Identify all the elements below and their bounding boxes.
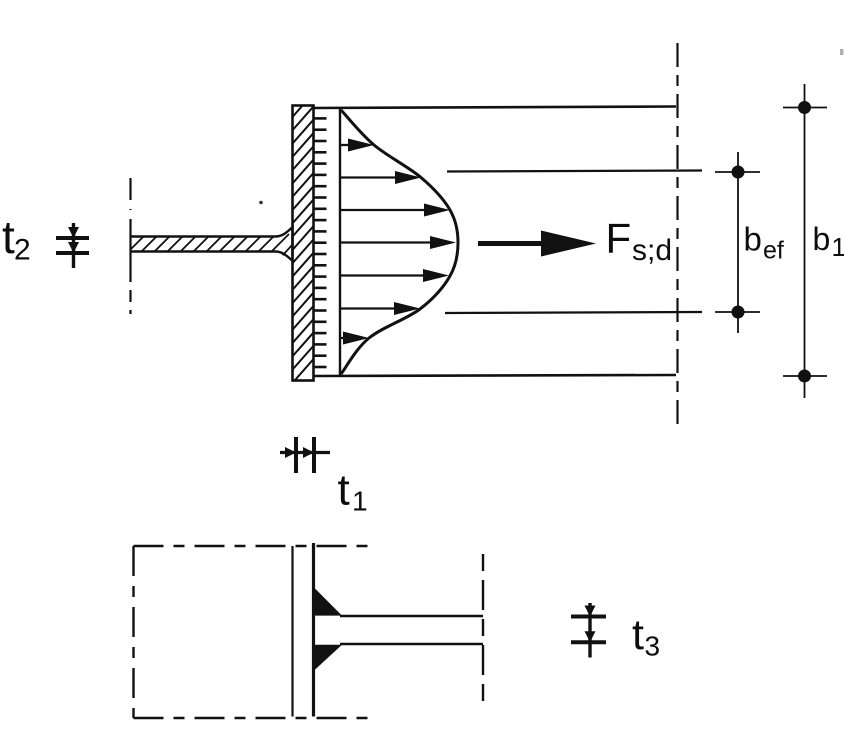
label F_s;d: [606, 215, 673, 268]
dimension mark t3: [571, 603, 606, 658]
stress arrow 3: [340, 204, 450, 217]
svg-text:t: t: [338, 466, 350, 515]
dimension mark t2: [56, 223, 89, 268]
label t1: [338, 466, 368, 517]
b_ef bottom boundary line: [445, 312, 702, 313]
stress arrow 6: [340, 302, 420, 315]
centre line (left dash-dot, flange cut line): [129, 178, 131, 314]
flange plate t2 (horizontal hatched plate): [126, 227, 304, 261]
end plate (vertical hatched plate): [288, 88, 318, 388]
dimension b_1: [783, 84, 827, 398]
svg-text:1: 1: [832, 232, 844, 262]
dimension b_ef: [715, 152, 760, 333]
fin plate cut dashed line: [482, 554, 484, 706]
top edge line of wall: [313, 107, 676, 109]
stress arrow 2: [340, 171, 421, 184]
stress arrow 5: [340, 269, 449, 282]
svg-text:t: t: [632, 611, 644, 659]
dimension mark t1: [280, 437, 330, 473]
svg-text:b: b: [744, 221, 762, 258]
wall dash-dot line (right): [676, 43, 678, 428]
label t3: [632, 611, 660, 662]
svg-text:2: 2: [14, 234, 31, 267]
label t2: [2, 211, 31, 267]
end plate edges (plan view): [293, 543, 314, 717]
svg-text:s;d: s;d: [632, 234, 672, 267]
stress arrow 7: [340, 332, 369, 345]
column outline dash-dot rectangle (plan view): [134, 546, 378, 718]
flange plate left end cap: [129, 236, 131, 252]
svg-text:F: F: [606, 215, 632, 262]
label b_1: [813, 221, 844, 262]
stray dot: [259, 201, 263, 205]
stray speck top right: [840, 49, 844, 55]
weld fillet upper (plan): [315, 589, 342, 616]
weld comb ticks on end plate face: [314, 118, 327, 367]
b_ef top boundary line: [447, 171, 702, 172]
svg-text:1: 1: [352, 486, 368, 517]
svg-text:3: 3: [645, 631, 661, 662]
svg-text:ef: ef: [763, 237, 784, 265]
svg-text:b: b: [813, 221, 831, 257]
stress distribution curve: [341, 110, 458, 374]
stress arrow 4: [340, 236, 456, 249]
fin plate bottom edge (plan): [340, 643, 483, 646]
stress diagram baseline: [339, 109, 341, 375]
bottom edge line of wall: [313, 375, 676, 376]
weld fillet lower (plan): [315, 645, 342, 670]
label b_ef: [744, 221, 784, 265]
force arrow F_s;d: [478, 231, 596, 257]
stress arrow 1: [340, 139, 374, 152]
fin plate top edge (plan): [340, 615, 483, 618]
